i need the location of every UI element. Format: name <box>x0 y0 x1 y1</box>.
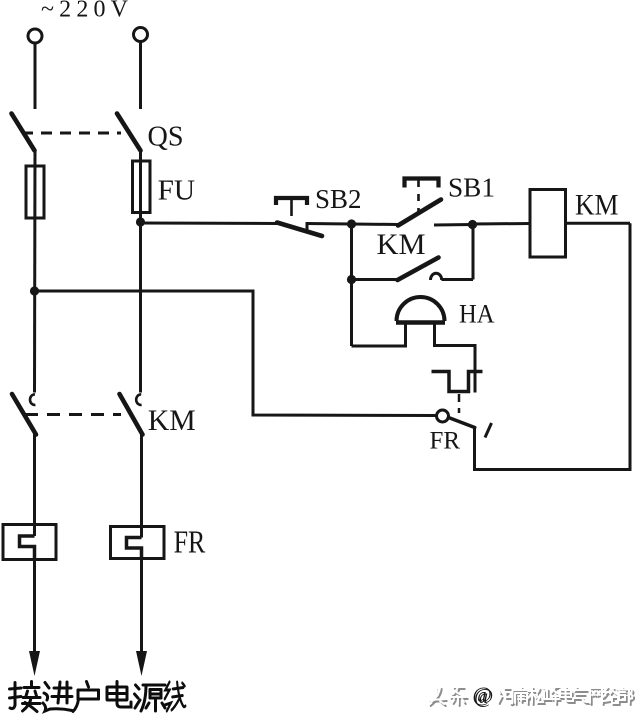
svg-text:@: @ <box>473 683 492 707</box>
svg-text:KM: KM <box>377 228 426 261</box>
svg-text:FU: FU <box>158 176 196 207</box>
svg-text:SB1: SB1 <box>448 173 495 203</box>
svg-text:SB2: SB2 <box>315 184 362 214</box>
svg-text:HA: HA <box>459 300 495 329</box>
svg-text:KM: KM <box>148 404 196 437</box>
svg-text:KM: KM <box>575 189 619 222</box>
svg-text:QS: QS <box>148 122 184 153</box>
svg-text:FR: FR <box>430 428 461 455</box>
svg-text:FR: FR <box>174 524 206 560</box>
